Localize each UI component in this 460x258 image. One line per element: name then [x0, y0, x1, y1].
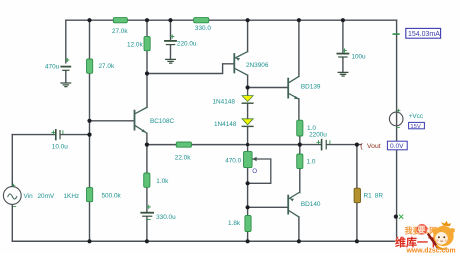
svg-text:1.0: 1.0 — [307, 159, 316, 166]
node dot mid x247 — [246, 143, 249, 146]
node dot bottom x89 — [87, 239, 91, 243]
wire input cap right — [61, 134, 90, 136]
wire output node to 2200u — [300, 144, 321, 146]
wire BD139 base — [248, 87, 289, 89]
svg-text:27.0k: 27.0k — [99, 63, 115, 70]
svg-text:22.0k: 22.0k — [175, 154, 191, 161]
svg-text:500.0k: 500.0k — [102, 193, 122, 200]
wire 330u cap to bottom rail — [146, 217, 148, 241]
wire between diodes — [247, 103, 249, 118]
wire 1.8k to bottom rail — [247, 232, 249, 242]
svg-text:1N4148: 1N4148 — [213, 98, 236, 105]
wire diode D2 to mid node — [247, 127, 249, 152]
wire left bias column x=89.5 — [89, 20, 91, 241]
node dot rail x247 — [246, 18, 250, 22]
node dot bottom x147 — [145, 239, 149, 243]
svg-text:470u: 470u — [45, 64, 60, 71]
node dot bottom x247 — [246, 239, 250, 243]
svg-text:O: O — [252, 168, 257, 175]
svg-text:2N3906: 2N3906 — [246, 62, 269, 69]
wire BD139 emitter to resistor — [298, 99, 300, 120]
resistor 27.0k vertical — [87, 59, 115, 73]
svg-text:12.0k: 12.0k — [127, 42, 143, 49]
svg-text:1.8k: 1.8k — [228, 220, 241, 227]
resistor R1 8R — [354, 188, 383, 203]
resistor 330.0 horizontal — [194, 18, 212, 33]
svg-text:1KHz: 1KHz — [64, 193, 80, 200]
svg-text:Vout: Vout — [367, 143, 381, 150]
svg-text:BC108C: BC108C — [150, 118, 175, 125]
resistor 500.0k — [87, 187, 122, 201]
wire 220u cap drop — [170, 20, 172, 40]
resistor 27.0k horizontal — [112, 18, 128, 35]
svg-text:R1: R1 — [364, 193, 373, 200]
svg-text:470.0: 470.0 — [225, 157, 241, 164]
resistor 1.8k — [228, 216, 251, 232]
capacitor 2200u — [309, 132, 330, 150]
wire Vin bottom — [11, 204, 13, 241]
label 0.0V — [387, 141, 407, 150]
svg-text:15V: 15V — [410, 124, 420, 130]
resistor 22.0k horizontal — [175, 142, 192, 161]
wire BD139 collector to rail — [298, 20, 300, 76]
svg-text:1N4148: 1N4148 — [214, 121, 237, 128]
wire 2200u to vout probe — [327, 144, 361, 146]
node dot bottom x357 — [355, 239, 359, 243]
wire 470u cap to ground — [65, 71, 67, 82]
wire BD140 collector to bottom rail — [298, 217, 300, 241]
ground for 470u — [61, 83, 71, 87]
wire input cap left — [12, 134, 55, 136]
svg-text:20mV: 20mV — [38, 193, 55, 200]
node dot rail x343 — [341, 18, 345, 22]
transistor Q4 BD140 — [288, 193, 321, 217]
diode D2 1N4148 — [214, 119, 253, 128]
wire 2N3906 collector to diode node — [247, 75, 249, 95]
resistor 12.0k — [127, 36, 150, 50]
svg-text:Vin: Vin — [24, 193, 34, 200]
node dot supply probe — [394, 215, 398, 219]
node dot vout — [355, 143, 359, 147]
source Vin — [3, 184, 79, 206]
wire top rail — [66, 19, 397, 21]
svg-text:2200u: 2200u — [309, 132, 327, 139]
diode D1 1N4148 — [213, 96, 254, 106]
wire output resistor to node — [299, 136, 301, 154]
node dot rail x299 — [297, 18, 301, 22]
svg-text:0.0V: 0.0V — [390, 143, 404, 150]
wire 2N3906 emitter to rail — [247, 20, 249, 51]
capacitor 220.0u — [165, 35, 197, 48]
wire 220u cap to ground — [170, 45, 172, 59]
svg-text:100u: 100u — [351, 53, 366, 60]
node dot input cap — [87, 133, 91, 137]
resistor 1.0 upper — [297, 120, 317, 136]
transistor Q1 BC108C — [135, 107, 175, 133]
node dot 12k bottom — [145, 71, 149, 75]
source V+ supply — [389, 109, 423, 127]
resistor 1.0 lower — [297, 154, 316, 169]
wire BC108C emitter down to feedback node — [146, 133, 148, 144]
svg-text:BD140: BD140 — [301, 201, 321, 208]
wire BD140 base — [248, 206, 289, 208]
watermark logo — [395, 221, 456, 255]
svg-text:1.0k: 1.0k — [156, 178, 169, 185]
wire 470u cap drop from rail — [65, 20, 67, 63]
capacitor 470u — [45, 58, 70, 70]
wire Vin top — [11, 135, 13, 187]
wire long middle horizontal — [147, 144, 300, 146]
wire 12k column x=147 — [146, 20, 148, 107]
resistor 1.0k — [144, 173, 169, 187]
node dot bottom x299 — [297, 239, 301, 243]
wire right supply column — [396, 20, 398, 241]
svg-text:8R: 8R — [375, 193, 384, 200]
svg-text:330.0u: 330.0u — [156, 214, 176, 221]
wire feedback node down to 330u cap — [146, 145, 148, 212]
svg-text:220.0u: 220.0u — [177, 41, 197, 48]
node dot pot bottom — [246, 181, 250, 185]
capacitor 330.0u — [141, 205, 176, 221]
node dot diode top — [246, 85, 250, 89]
wire 100u cap drop — [342, 20, 344, 53]
ground for 220u — [166, 59, 176, 63]
svg-text:154.03mA: 154.03mA — [408, 31, 440, 38]
svg-text:10.0u: 10.0u — [52, 144, 68, 151]
wire pot wiper loop — [248, 159, 271, 183]
node dot rail x170 — [168, 18, 172, 22]
probe marker bottom green cross — [399, 215, 403, 219]
label 154.03mA — [406, 28, 441, 38]
ground for 100u — [338, 72, 348, 76]
node dot BD140 base — [246, 205, 250, 209]
wire bottom rail — [12, 240, 396, 242]
label 15V — [409, 122, 425, 129]
wire lower 1.0 resistor to BD140 emitter — [299, 169, 301, 193]
svg-text:330.0: 330.0 — [195, 25, 211, 32]
svg-text:27.0k: 27.0k — [112, 28, 128, 35]
capacitor 100u — [337, 49, 366, 61]
svg-text:要: 要 — [417, 225, 425, 235]
wire BC108C base — [90, 120, 135, 122]
node dot base BC108C — [87, 119, 91, 123]
svg-text:BD139: BD139 — [301, 84, 321, 91]
svg-text:+Vcc: +Vcc — [409, 113, 424, 120]
capacitor 10.0u — [52, 130, 68, 151]
wire R1 column — [356, 145, 358, 242]
wire 100u cap to ground — [342, 57, 344, 72]
transistor Q3 BD139 — [288, 76, 321, 99]
node dot emitter BC108C — [145, 143, 149, 147]
node dot output — [298, 143, 302, 147]
ammeter probe tick — [393, 33, 399, 35]
node dot rail x89 — [87, 18, 91, 22]
wire pot column down — [247, 168, 249, 216]
potentiometer 470.0 — [225, 151, 257, 175]
svg-text:www.dzsc.com: www.dzsc.com — [406, 247, 456, 253]
wire jog to 2N3906 base — [147, 64, 234, 74]
transistor Q2 2N3906 — [234, 52, 269, 76]
node dot rail x147 — [145, 18, 149, 22]
